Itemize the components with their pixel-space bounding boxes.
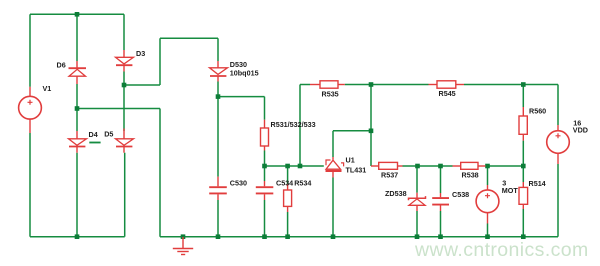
svg-text:C534: C534 <box>276 179 293 188</box>
svg-text:C538: C538 <box>452 190 469 199</box>
svg-text:R545: R545 <box>439 89 456 98</box>
svg-text:VDD: VDD <box>573 125 588 134</box>
svg-text:R514: R514 <box>529 179 546 188</box>
svg-text:D3: D3 <box>136 49 145 58</box>
svg-text:R538: R538 <box>462 170 479 179</box>
svg-text:C530: C530 <box>230 179 247 188</box>
svg-text:D4: D4 <box>89 130 98 139</box>
svg-text:D5: D5 <box>104 129 113 138</box>
svg-text:D6: D6 <box>57 61 66 70</box>
svg-text:TL431: TL431 <box>346 165 367 174</box>
svg-text:ZD538: ZD538 <box>385 189 407 198</box>
svg-text:R531/532/533: R531/532/533 <box>271 120 316 129</box>
svg-text:R560: R560 <box>529 107 546 116</box>
svg-text:R537: R537 <box>381 171 398 180</box>
svg-text:R535: R535 <box>322 90 339 99</box>
svg-text:10bq015: 10bq015 <box>230 69 259 78</box>
svg-text:V1: V1 <box>43 84 52 93</box>
svg-text:R534: R534 <box>294 179 311 188</box>
svg-text:MOT: MOT <box>502 186 519 195</box>
svg-text:D530: D530 <box>230 60 247 69</box>
svg-text:www.cntronics.com: www.cntronics.com <box>414 239 589 261</box>
svg-text:U1: U1 <box>346 156 355 165</box>
